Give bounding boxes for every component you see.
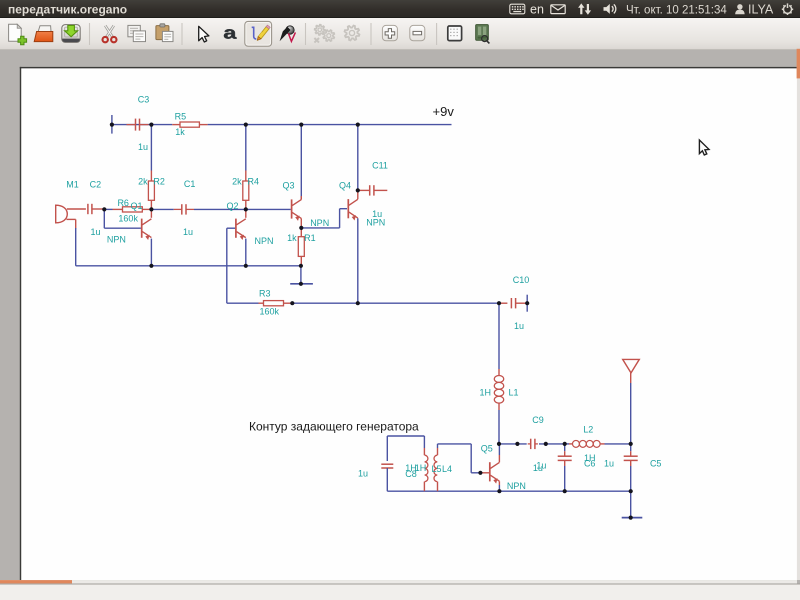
svg-text:1k: 1k — [287, 233, 297, 243]
svg-text:NPN: NPN — [366, 218, 385, 228]
svg-text:NPN: NPN — [310, 218, 329, 228]
svg-text:1u: 1u — [514, 321, 524, 331]
svg-text:R4: R4 — [248, 176, 260, 186]
svg-text:C6: C6 — [584, 458, 596, 468]
svg-text:NPN: NPN — [254, 236, 273, 246]
svg-text:2k: 2k — [138, 176, 148, 186]
svg-text:1u: 1u — [358, 468, 368, 478]
svg-text:a: a — [223, 23, 237, 42]
svg-text:1k: 1k — [175, 127, 185, 137]
svg-text:Q1: Q1 — [130, 201, 142, 211]
svg-text:R5: R5 — [175, 112, 187, 122]
svg-text:C5: C5 — [650, 458, 662, 468]
svg-text:160k: 160k — [118, 213, 138, 223]
svg-text:1H: 1H — [415, 463, 427, 473]
svg-text:Q3: Q3 — [282, 180, 294, 190]
svg-text:1u: 1u — [183, 227, 193, 237]
svg-text:1H: 1H — [480, 388, 492, 398]
svg-text:ILYA: ILYA — [748, 3, 774, 17]
svg-text:1u: 1u — [138, 142, 148, 152]
svg-text:Q2: Q2 — [226, 201, 238, 211]
svg-text:L4: L4 — [442, 464, 452, 474]
svg-text:1u: 1u — [604, 459, 614, 469]
svg-text:L5: L5 — [431, 464, 441, 474]
svg-text:Чт. окт. 10 21:51:34: Чт. окт. 10 21:51:34 — [626, 4, 727, 16]
svg-text:C3: C3 — [138, 94, 150, 104]
svg-text:Q4: Q4 — [339, 181, 351, 191]
svg-text:C2: C2 — [90, 180, 102, 190]
svg-text:C10: C10 — [513, 275, 530, 285]
svg-text:M1: M1 — [66, 180, 79, 190]
svg-text:160k: 160k — [260, 307, 280, 317]
svg-text:передатчик.oregano: передатчик.oregano — [8, 3, 127, 17]
svg-text:Контур задающего генератора: Контур задающего генератора — [249, 420, 419, 434]
svg-text:C1: C1 — [184, 179, 196, 189]
svg-text:1u: 1u — [90, 227, 100, 237]
svg-text:1u: 1u — [533, 463, 543, 473]
svg-text:R3: R3 — [259, 288, 271, 298]
svg-text:NPN: NPN — [107, 235, 126, 245]
svg-text:R1: R1 — [304, 233, 316, 243]
svg-text:R2: R2 — [153, 176, 165, 186]
svg-text:Q5: Q5 — [481, 444, 493, 454]
svg-text:C9: C9 — [532, 415, 544, 425]
svg-text:+9v: +9v — [433, 104, 455, 119]
svg-text:C11: C11 — [372, 160, 388, 170]
svg-text:NPN: NPN — [507, 481, 526, 491]
svg-text:L2: L2 — [583, 425, 593, 435]
svg-text:2k: 2k — [232, 176, 242, 186]
svg-text:en: en — [530, 3, 544, 17]
svg-text:R6: R6 — [117, 198, 129, 208]
svg-text:L1: L1 — [508, 388, 518, 398]
